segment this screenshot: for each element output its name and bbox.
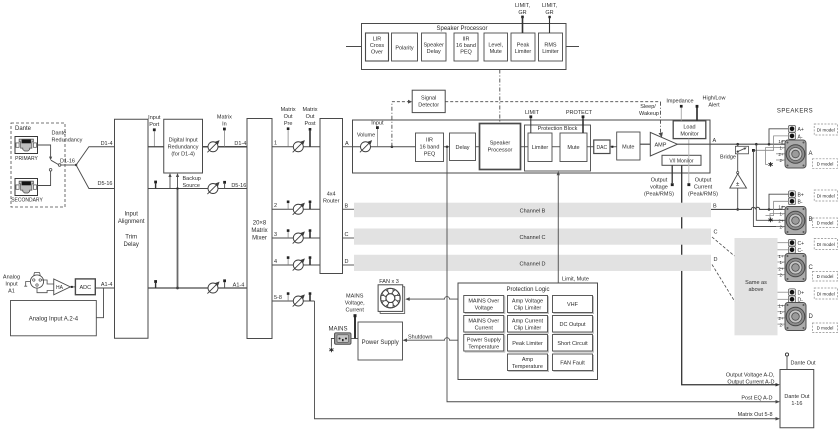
svg-text:D model: D model bbox=[817, 221, 834, 226]
svg-text:D1-4: D1-4 bbox=[234, 141, 246, 147]
svg-text:Temperature: Temperature bbox=[512, 364, 543, 370]
amp: bridge inverter triangle bbox=[737, 172, 739, 174]
block: Delay bbox=[450, 133, 476, 161]
wire: ADC to input alignment (A1-4) bbox=[95, 287, 114, 289]
svg-text:Analog Input A.2-4: Analog Input A.2-4 bbox=[29, 317, 79, 323]
svg-text:Analog: Analog bbox=[3, 275, 20, 281]
svg-text:Short Circuit: Short Circuit bbox=[557, 341, 588, 347]
svg-text:Bridge: Bridge bbox=[720, 155, 736, 161]
svg-text:1-: 1- bbox=[779, 146, 784, 151]
svg-text:Matrix: Matrix bbox=[281, 107, 296, 113]
svg-text:Output Current A-D: Output Current A-D bbox=[727, 380, 774, 386]
svg-text:IIR: IIR bbox=[426, 138, 433, 144]
block: 4x4 Router bbox=[320, 119, 343, 274]
block: ADC bbox=[75, 279, 95, 295]
svg-text:GR: GR bbox=[545, 10, 553, 16]
svg-text:Polarity: Polarity bbox=[395, 46, 414, 52]
svg-text:voltage: voltage bbox=[650, 185, 668, 191]
svg-text:Out: Out bbox=[306, 114, 315, 120]
block: RMS Limiter bbox=[539, 33, 563, 61]
svg-text:16 band: 16 band bbox=[456, 43, 476, 49]
wire: Delay to Speaker Processor bbox=[476, 146, 480, 148]
block: VHF bbox=[553, 296, 594, 314]
svg-text:Dante Out: Dante Out bbox=[784, 394, 810, 400]
svg-text:FAN x 3: FAN x 3 bbox=[379, 279, 399, 285]
svg-text:Channel C: Channel C bbox=[520, 235, 546, 241]
wire: split to D1-4 bbox=[76, 147, 114, 165]
svg-text:C: C bbox=[714, 230, 718, 236]
svg-text:LIMIT,: LIMIT, bbox=[542, 3, 557, 9]
svg-text:Trim: Trim bbox=[125, 235, 137, 241]
svg-text:Matrix: Matrix bbox=[251, 228, 267, 234]
block: Channel B bar bbox=[354, 203, 711, 218]
svg-text:A1: A1 bbox=[8, 289, 15, 295]
block: Channel D bar bbox=[354, 255, 711, 271]
wire: LIMIT GR drop to Peak Limiter bbox=[522, 17, 524, 33]
svg-text:Matrix: Matrix bbox=[303, 107, 318, 113]
connector: binding post B+ bbox=[788, 191, 795, 198]
svg-text:PEQ: PEQ bbox=[460, 50, 472, 56]
node: input port tap on D1-4 bbox=[153, 128, 156, 131]
svg-text:C+: C+ bbox=[798, 241, 805, 247]
svg-text:Speaker: Speaker bbox=[423, 43, 444, 49]
svg-text:Port: Port bbox=[149, 122, 160, 128]
block: Mute (amp stage) bbox=[617, 132, 640, 160]
wire: speakON A stubs bbox=[776, 147, 785, 149]
block: IIR 16 band PEQ (speaker processor) bbox=[454, 33, 478, 61]
svg-text:Peak Limiter: Peak Limiter bbox=[512, 341, 543, 347]
wire: impedance line up bbox=[680, 108, 682, 121]
svg-text:Channel B: Channel B bbox=[520, 208, 546, 214]
svg-text:Router: Router bbox=[323, 199, 340, 205]
svg-text:D model: D model bbox=[817, 162, 834, 167]
wire: analog 2-4 join A1-4 line bbox=[96, 288, 103, 318]
block: DI model dashed (C posts) bbox=[814, 239, 837, 250]
wire: router A to channel A bbox=[343, 146, 353, 148]
wire: dash-dot drop to AMP (sleep/wakeup) bbox=[660, 102, 662, 133]
svg-text:Input: Input bbox=[5, 282, 18, 288]
svg-text:D: D bbox=[714, 257, 718, 263]
svg-text:1-: 1- bbox=[779, 310, 784, 315]
svg-text:Alert: Alert bbox=[708, 103, 720, 109]
svg-text:1+: 1+ bbox=[778, 254, 784, 259]
svg-text:Output: Output bbox=[651, 178, 668, 184]
block: Peak Limiter (top) bbox=[511, 33, 535, 61]
wire: bridge switch to inverter bbox=[737, 154, 739, 174]
wire: A line drop (to B 2+) bbox=[755, 143, 758, 146]
amp: AMP power stage bbox=[650, 132, 677, 156]
svg-text:V/I Monitor: V/I Monitor bbox=[669, 159, 694, 165]
wire: B+ feeder bbox=[768, 208, 771, 211]
svg-text:3: 3 bbox=[274, 232, 277, 238]
svg-text:C: C bbox=[345, 232, 349, 238]
wire: A- drop (to B 2-) bbox=[752, 149, 755, 152]
svg-text:PROTECT: PROTECT bbox=[566, 110, 593, 116]
svg-text:(for D1-4): (for D1-4) bbox=[171, 152, 195, 158]
wire: high/low alert line up bbox=[696, 108, 698, 121]
svg-text:Shutdown: Shutdown bbox=[408, 335, 432, 341]
svg-text:A-: A- bbox=[798, 134, 803, 140]
node: A1-4 port tap bbox=[154, 280, 157, 283]
block: Protection Block enclosure bbox=[525, 125, 591, 171]
block: Peak Limiter (protection logic) bbox=[508, 335, 549, 353]
wire: backup source vertical (A1-4 to redundancy) bbox=[177, 189, 179, 289]
svg-text:2-: 2- bbox=[779, 225, 784, 230]
svg-text:B: B bbox=[713, 203, 717, 209]
wire: router D to channel D bbox=[343, 264, 355, 266]
svg-text:D5-16: D5-16 bbox=[231, 183, 246, 189]
svg-text:IIR: IIR bbox=[462, 37, 469, 43]
svg-text:Redundancy: Redundancy bbox=[168, 145, 199, 151]
svg-text:Temperature: Temperature bbox=[468, 345, 499, 351]
svg-text:B-: B- bbox=[798, 200, 803, 206]
block: Speaker Processor detail outer box bbox=[362, 24, 567, 70]
svg-text:DI model: DI model bbox=[817, 292, 835, 297]
knob: channel A volume bbox=[360, 140, 372, 152]
svg-text:MAINS Over: MAINS Over bbox=[468, 299, 499, 305]
svg-text:Processor: Processor bbox=[488, 148, 513, 154]
svg-text:Monitor: Monitor bbox=[680, 132, 699, 138]
wire: IEC to power supply bbox=[351, 338, 358, 340]
block: Polarity bbox=[392, 33, 418, 61]
connector: XLR input A1 bbox=[30, 273, 43, 289]
svg-text:2-: 2- bbox=[779, 273, 784, 278]
svg-text:Limiter: Limiter bbox=[532, 145, 549, 151]
knob: A1-4 level bbox=[207, 281, 219, 293]
switch: bridge selector bbox=[737, 144, 739, 151]
svg-text:Volume: Volume bbox=[357, 133, 375, 139]
svg-text:2+: 2+ bbox=[778, 266, 784, 271]
svg-text:SECONDARY: SECONDARY bbox=[11, 198, 43, 204]
svg-text:Clip Limiter: Clip Limiter bbox=[514, 306, 542, 312]
svg-text:2-: 2- bbox=[779, 322, 784, 327]
wire: speakON D stubs bbox=[778, 305, 786, 307]
svg-text:16 band: 16 band bbox=[420, 145, 440, 151]
svg-text:Cross: Cross bbox=[370, 43, 385, 49]
svg-text:Power Supply: Power Supply bbox=[467, 338, 501, 344]
svg-text:Voltage,: Voltage, bbox=[345, 301, 365, 307]
node: D5-16 post tick bbox=[223, 181, 226, 184]
switch: dante redundancy selector lever bbox=[51, 160, 58, 164]
svg-text:2+: 2+ bbox=[778, 152, 784, 157]
wire: output V/C down to Dante Out bbox=[682, 165, 778, 384]
connector: binding post A- bbox=[788, 133, 795, 140]
svg-text:Backup: Backup bbox=[183, 176, 201, 182]
block: Protection Logic enclosure bbox=[458, 283, 598, 380]
connector: binding post B- bbox=[788, 198, 795, 205]
block: Amp Temperature bbox=[508, 354, 549, 372]
svg-text:D5-16: D5-16 bbox=[98, 181, 113, 187]
svg-text:5-8: 5-8 bbox=[274, 295, 282, 301]
wire: impedance sense light line bbox=[688, 139, 690, 183]
wire: mains source lead with star bbox=[331, 339, 334, 347]
wire: LIMIT GR drop to RMS Limiter bbox=[549, 17, 551, 33]
switch: secondary contact bbox=[49, 169, 52, 172]
block: Amp Voltage Clip Limiter bbox=[508, 296, 549, 314]
svg-text:DI model: DI model bbox=[817, 128, 835, 133]
wire: dash-dot tap up from channel A line to signal detector bbox=[391, 102, 393, 147]
connector: RJ45 SECONDARY bbox=[15, 179, 38, 196]
svg-text:Matrix Out 5-8: Matrix Out 5-8 bbox=[738, 412, 773, 418]
svg-text:above: above bbox=[749, 287, 764, 293]
svg-text:Delay: Delay bbox=[427, 49, 441, 55]
block: Load Monitor bbox=[673, 121, 706, 139]
svg-text:1-: 1- bbox=[779, 260, 784, 265]
wire: XLR hot to HA bbox=[41, 280, 53, 284]
svg-text:Source: Source bbox=[183, 183, 200, 189]
block: V/I Monitor bbox=[662, 155, 701, 165]
svg-text:1-16: 1-16 bbox=[791, 401, 802, 407]
wire: HA to ADC bbox=[70, 286, 75, 288]
wire: D post feeders bbox=[778, 291, 789, 293]
svg-text:DI model: DI model bbox=[817, 242, 835, 247]
block: Channel C bar bbox=[354, 229, 711, 245]
node: MAINS voltage/current tap bbox=[354, 317, 356, 339]
connector: speakON D bbox=[785, 303, 806, 331]
connector: binding post C- bbox=[788, 246, 795, 253]
svg-text:Over: Over bbox=[371, 50, 383, 56]
svg-text:(Peak/RMS): (Peak/RMS) bbox=[688, 192, 718, 198]
svg-text:Mixer: Mixer bbox=[252, 236, 267, 242]
svg-text:Post EQ A-D: Post EQ A-D bbox=[741, 395, 772, 401]
svg-text:2+: 2+ bbox=[778, 316, 784, 321]
connector: IEC mains inlet bbox=[335, 333, 352, 345]
block: Short Circuit bbox=[553, 335, 594, 353]
svg-text:Power Supply: Power Supply bbox=[362, 340, 399, 346]
block: Analog Input A.2-4 bbox=[11, 301, 97, 336]
svg-text:Redundancy: Redundancy bbox=[52, 138, 83, 144]
svg-text:VHF: VHF bbox=[567, 302, 579, 308]
block: FAN Fault bbox=[553, 354, 594, 372]
amp: HA head amp triangle bbox=[54, 279, 71, 295]
block: Input Alignment / Trim Delay bbox=[115, 119, 149, 338]
block: Signal Detector bbox=[412, 90, 445, 112]
block: D model dashed (C speakON) bbox=[812, 272, 837, 282]
svg-text:Input: Input bbox=[125, 212, 139, 218]
svg-text:20×8: 20×8 bbox=[253, 221, 267, 227]
svg-text:2: 2 bbox=[274, 203, 277, 209]
svg-text:Level,: Level, bbox=[488, 43, 503, 49]
svg-text:(Peak/RMS): (Peak/RMS) bbox=[644, 192, 674, 198]
wire: XLR cold to HA bbox=[37, 288, 54, 293]
svg-text:Sleep/: Sleep/ bbox=[640, 104, 656, 110]
svg-text:Delay: Delay bbox=[455, 145, 469, 151]
svg-text:Dante: Dante bbox=[52, 131, 67, 137]
svg-text:FAN Fault: FAN Fault bbox=[560, 361, 585, 367]
wire: XLR shield to ground stub bbox=[26, 282, 31, 287]
node: LIMIT GR tap (rms) bbox=[548, 16, 550, 18]
connector: RJ45 PRIMARY bbox=[15, 137, 38, 154]
svg-text:Input: Input bbox=[371, 121, 384, 127]
block: Speaker Delay bbox=[422, 33, 447, 61]
svg-text:MAINS: MAINS bbox=[328, 327, 347, 333]
wire: C post feeders bbox=[778, 242, 789, 244]
svg-text:Delay: Delay bbox=[124, 242, 139, 248]
block: DI model dashed (D posts) bbox=[814, 288, 837, 299]
wire: speakON B stubs bbox=[776, 213, 785, 215]
svg-text:Dante Out: Dante Out bbox=[791, 361, 817, 367]
svg-text:A: A bbox=[345, 141, 349, 147]
block: Dante dashed enclosure bbox=[11, 123, 65, 207]
svg-text:D1-16: D1-16 bbox=[60, 159, 75, 165]
block: DI model dashed (A posts) bbox=[814, 124, 837, 135]
wire: router C to channel C bbox=[343, 237, 355, 239]
svg-text:GR: GR bbox=[518, 10, 526, 16]
node: D5-16 port tap bbox=[154, 181, 157, 184]
svg-text:Alignment: Alignment bbox=[118, 219, 145, 225]
block: Dante Out 1-16 bbox=[780, 370, 814, 428]
connector: speakON A bbox=[785, 140, 806, 168]
wire: stub out of speaker processor detail (right) bbox=[566, 46, 579, 48]
svg-text:Impedance: Impedance bbox=[666, 99, 693, 105]
note: star mark B bbox=[769, 218, 773, 223]
wire: primary feed to switch bbox=[38, 145, 51, 158]
svg-text:Input: Input bbox=[148, 115, 161, 121]
wire: B line into speakON 1+ bbox=[782, 207, 785, 210]
block: D model dashed (A speakON) bbox=[812, 159, 837, 169]
svg-text:A1-4: A1-4 bbox=[101, 282, 113, 288]
svg-text:Limit, Mute: Limit, Mute bbox=[562, 277, 589, 283]
svg-text:Limiter: Limiter bbox=[542, 49, 559, 55]
connector: speakON B bbox=[785, 207, 806, 235]
wire: shutdown from protection logic to power supply bbox=[406, 338, 459, 341]
block: Channel A enclosure bbox=[353, 120, 711, 173]
wire: channel B output line bbox=[711, 207, 782, 209]
svg-text:D: D bbox=[345, 259, 349, 265]
svg-text:Wakeup: Wakeup bbox=[639, 111, 659, 117]
svg-text:D model: D model bbox=[817, 274, 834, 279]
wire: DAC to Mute (amp) bbox=[610, 146, 617, 148]
svg-text:Pre: Pre bbox=[284, 121, 293, 127]
svg-text:Matrix: Matrix bbox=[217, 115, 232, 121]
wire: dash-dot link from detail box to Speaker Processor block bbox=[499, 70, 501, 124]
svg-text:PRIMARY: PRIMARY bbox=[15, 156, 38, 162]
svg-text:MAINS: MAINS bbox=[346, 294, 364, 300]
svg-text:A1-4: A1-4 bbox=[233, 282, 245, 288]
svg-text:Amp Voltage: Amp Voltage bbox=[512, 299, 543, 305]
svg-text:A: A bbox=[713, 138, 717, 144]
svg-text:D1-4: D1-4 bbox=[101, 141, 113, 147]
svg-text:2+: 2+ bbox=[778, 218, 784, 223]
svg-text:A: A bbox=[809, 151, 813, 157]
svg-text:Digital Input: Digital Input bbox=[169, 138, 199, 144]
svg-text:HA: HA bbox=[56, 285, 64, 291]
wire: PEQ to Delay with post-EQ tap bbox=[444, 146, 450, 148]
svg-text:1: 1 bbox=[274, 141, 277, 147]
svg-text:Amp Current: Amp Current bbox=[512, 319, 544, 325]
wire: secondary feed to switch bbox=[38, 171, 51, 185]
block: Level, Mute bbox=[484, 33, 508, 61]
wire: split to D5-16 bbox=[76, 165, 114, 189]
svg-text:C: C bbox=[809, 265, 814, 271]
block: DC Output bbox=[553, 316, 594, 334]
svg-text:A+: A+ bbox=[798, 127, 804, 133]
wire: dashed from signal detector to sleep/wakeup bbox=[445, 101, 660, 103]
knob: D5-16 level bbox=[207, 182, 219, 194]
svg-text:B: B bbox=[809, 217, 813, 223]
svg-text:Amp: Amp bbox=[522, 357, 533, 363]
svg-text:2-: 2- bbox=[779, 158, 784, 163]
node: A1-4 post tick bbox=[223, 279, 226, 282]
svg-text:Current: Current bbox=[346, 308, 365, 314]
block: Digital Input Redundancy bbox=[164, 119, 203, 173]
connector: binding post D- bbox=[788, 296, 795, 303]
wire: fan control from protection logic bbox=[408, 297, 459, 300]
svg-text:AMP: AMP bbox=[655, 143, 667, 149]
connector: binding post D+ bbox=[788, 289, 795, 296]
wire: D5-16 through alignment bbox=[148, 188, 247, 190]
svg-text:4: 4 bbox=[274, 259, 277, 265]
wire: A1-4 through alignment to mixer bbox=[148, 287, 247, 289]
svg-text:Mute: Mute bbox=[567, 145, 579, 151]
svg-text:Same as: Same as bbox=[745, 280, 767, 286]
svg-text:Current: Current bbox=[475, 326, 494, 332]
block: Amp Current Clip Limiter bbox=[508, 316, 549, 334]
wire: A line into speakON 1+ bbox=[782, 141, 785, 144]
svg-text:Limiter: Limiter bbox=[515, 49, 532, 55]
wire: channel A signal line bbox=[353, 146, 416, 148]
wire: B- feeder bbox=[766, 201, 789, 215]
wire: switch output D1-16 bbox=[61, 164, 76, 166]
svg-text:Protection Block: Protection Block bbox=[538, 126, 578, 132]
wire: stub into speaker processor detail (left) bbox=[346, 46, 362, 48]
node: LIMIT GR tap (peak) bbox=[521, 16, 524, 19]
wire: output voltage line bbox=[671, 165, 673, 183]
connector: binding post A+ bbox=[788, 125, 795, 132]
node: input tap bbox=[376, 126, 379, 129]
svg-text:D+: D+ bbox=[798, 290, 805, 296]
note: star mark A bbox=[769, 162, 773, 167]
svg-text:1+: 1+ bbox=[778, 304, 784, 309]
connector: speakON C bbox=[785, 254, 806, 282]
svg-text:Speaker: Speaker bbox=[490, 141, 511, 147]
node: Dante Out port bbox=[785, 353, 788, 356]
svg-text:DI model: DI model bbox=[817, 194, 835, 199]
wire: Mute to DAC bbox=[587, 146, 594, 148]
svg-text:Clip Limiter: Clip Limiter bbox=[514, 326, 542, 332]
wire: speakON C stubs bbox=[778, 255, 786, 257]
block: DI model dashed (B posts) bbox=[814, 190, 837, 201]
svg-text:1+: 1+ bbox=[778, 139, 784, 144]
connector: binding post C+ bbox=[788, 239, 795, 246]
svg-text:Load: Load bbox=[683, 125, 695, 131]
svg-text:Speaker Processor: Speaker Processor bbox=[436, 26, 487, 32]
svg-text:Output Voltage A-D,: Output Voltage A-D, bbox=[726, 373, 775, 379]
svg-text:Output: Output bbox=[695, 178, 712, 184]
knob: D1-4 level bbox=[207, 140, 219, 152]
svg-text:LIMIT: LIMIT bbox=[525, 110, 540, 116]
block: LIR Cross Over bbox=[366, 33, 389, 61]
wire: backup arrows into redundancy box bbox=[169, 175, 171, 189]
svg-text:Detector: Detector bbox=[418, 103, 439, 109]
block: DAC bbox=[594, 140, 610, 154]
wire: inverter to channel B line bbox=[737, 188, 739, 209]
wire: A- feeder bbox=[753, 136, 788, 150]
block: IIR 16 band PEQ (channel) bbox=[416, 133, 444, 162]
wire: B 2+ stub bbox=[776, 219, 785, 221]
wire: matrix out 5-8 to Dante Out bbox=[315, 301, 778, 419]
block: D model dashed (B speakON) bbox=[812, 218, 837, 228]
block: Power Supply bbox=[358, 322, 403, 360]
svg-text:In: In bbox=[222, 122, 227, 128]
svg-text:B+: B+ bbox=[798, 192, 804, 198]
svg-text:Mute: Mute bbox=[490, 49, 502, 55]
svg-text:Voltage: Voltage bbox=[475, 306, 493, 312]
svg-text:Post: Post bbox=[304, 121, 315, 127]
block: Limiter bbox=[528, 133, 552, 162]
svg-text:Channel D: Channel D bbox=[520, 261, 546, 267]
svg-text:1+: 1+ bbox=[778, 205, 784, 210]
